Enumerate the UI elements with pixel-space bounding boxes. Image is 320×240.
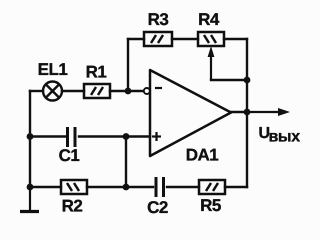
resistor R2: [61, 180, 87, 194]
svg-text:DA1: DA1: [186, 146, 219, 165]
node inverting input: [125, 88, 132, 95]
node output: [244, 109, 251, 116]
node ground rail left: [27, 184, 34, 191]
capacitor C1: [68, 127, 76, 147]
wire lamp to R1: [62, 90, 84, 92]
wire R2 to C2: [87, 186, 153, 188]
wire middle vertical: [125, 137, 127, 188]
wiper arrow of R4: [208, 46, 215, 80]
svg-text:R5: R5: [200, 196, 221, 215]
op-amp DA1: [150, 70, 231, 156]
wire wiper horizontal: [211, 79, 247, 81]
wire feedback vertical: [127, 39, 129, 91]
svg-text:R1: R1: [86, 63, 107, 82]
wire C1 to op-amp plus input: [79, 135, 150, 137]
node C1 right: [123, 133, 130, 140]
wire C2 to R5: [167, 186, 199, 188]
wire R1 to inverting node: [110, 90, 143, 92]
wire R5 to right bus: [225, 186, 247, 188]
capacitor C2: [156, 177, 164, 197]
svg-text:R4: R4: [198, 10, 220, 29]
node wiper to bus: [244, 77, 251, 84]
wire bottom rail left: [30, 186, 61, 188]
node C1 left: [27, 133, 34, 140]
wire C1 row left: [30, 135, 65, 137]
wire op-amp output: [231, 111, 247, 113]
ground: [20, 187, 39, 212]
svg-text:C1: C1: [59, 146, 80, 165]
wire R4 to right bus: [224, 38, 247, 40]
svg-text:C2: C2: [147, 198, 168, 217]
lamp EL1: [43, 82, 62, 101]
wire R3 to R4: [172, 38, 198, 40]
resistor R3: [144, 32, 172, 46]
output arrow: [247, 108, 290, 116]
wire feedback top to R3: [128, 38, 144, 40]
svg-text:R2: R2: [62, 197, 83, 216]
resistor R1: [84, 84, 110, 98]
minus sign: [155, 87, 162, 89]
svg-text:EL1: EL1: [38, 60, 68, 79]
plus sign: [152, 132, 161, 141]
svg-text:R3: R3: [148, 10, 169, 29]
wire lamp row left: [30, 90, 43, 92]
resistor R4 (trimmer): [198, 32, 224, 46]
resistor R5: [199, 180, 225, 194]
wire left vertical bus: [29, 91, 31, 187]
inverting input bubble: [144, 88, 150, 94]
node bottom middle: [123, 184, 130, 191]
svg-text:вых: вых: [269, 129, 301, 146]
node junction dots: [27, 77, 251, 191]
wire right vertical bus: [246, 39, 248, 187]
